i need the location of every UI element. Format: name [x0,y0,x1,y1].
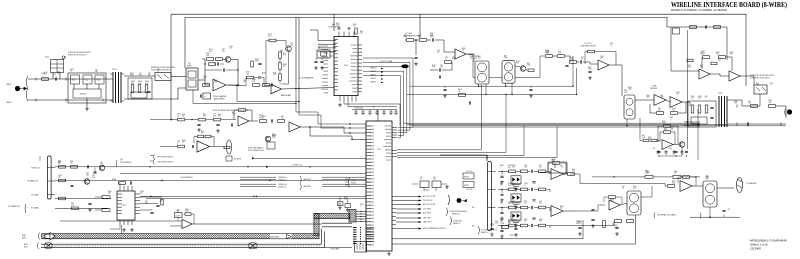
svg-text:R204: R204 [182,140,186,142]
svg-text:4.7K: 4.7K [344,199,347,201]
wire riser filter2 in b [576,68,578,94]
filter2 caps [580,60,581,63]
ground U16 [338,103,342,107]
svg-text:ADC TRIG: ADC TRIG [423,212,432,215]
svg-text:TO SMR BUS: TO SMR BUS [746,183,757,185]
U20 feedback resistor [185,213,191,216]
transistor Q5 row2 [84,179,90,185]
protection network K101 contact block [68,73,106,103]
op-amp U22 row3 [551,206,563,217]
rail cap [657,150,660,155]
svg-text:220: 220 [437,52,440,54]
svg-text:R156: R156 [500,165,504,167]
capacitor C41 [271,119,272,122]
svg-text:C12: C12 [433,177,436,179]
svg-text:R156: R156 [338,203,342,205]
svg-text:.1: .1 [512,203,513,205]
wire modem verticals right [686,30,688,149]
modem cap 3 [685,151,688,152]
svg-text:.1: .1 [500,167,501,169]
protection diode pair [511,194,521,202]
row cap2 [532,218,535,219]
svg-text:C88: C88 [280,50,283,52]
svg-text:R47: R47 [508,221,511,223]
svg-text:1K: 1K [622,188,624,190]
svg-text:2.2K: 2.2K [558,53,561,55]
hatched bus vertical riser [314,214,319,236]
wire U17 mid right run 3 [397,126,786,156]
resistor R1 on line [42,78,49,81]
svg-text:220: 220 [57,73,60,75]
svg-text:220: 220 [500,221,503,223]
wire bottom long 2 [392,215,636,244]
filter1 resistor Ra [407,39,414,42]
svg-text:SK362: SK362 [464,177,469,179]
svg-text:.01: .01 [177,115,179,117]
grid resistor [698,105,701,113]
svg-text:4.7K: 4.7K [495,223,498,225]
svg-text:C204: C204 [229,46,233,48]
row resistor c [539,188,546,191]
twisted pair dashes [46,245,320,247]
A/D MUX note [300,176,301,190]
svg-text:( 750 DATA IN 2 ): ( 750 DATA IN 2 ) [180,176,194,179]
varistor RV1 box above [51,60,64,73]
svg-text:POSITION OF HIGH SECURITY: POSITION OF HIGH SECURITY [68,52,92,54]
row wire [498,225,509,227]
svg-text:4.7K: 4.7K [612,225,615,227]
svg-text:R47: R47 [283,53,286,55]
svg-text:.047: .047 [691,98,694,100]
wire amp out to ADC [282,88,335,90]
row2 wire [55,180,366,182]
svg-text:TONE CLK: TONE CLK [31,167,41,169]
svg-text:220: 220 [539,167,542,169]
hatched bus horizontal upper [314,214,350,219]
U17 row wire TX OUT WP [396,200,421,202]
svg-text:R101: R101 [512,219,516,221]
filter1 caps2 [439,68,440,71]
wire band left extensions [404,122,482,124]
svg-text:1K: 1K [160,201,162,203]
svg-text:RX DATA: RX DATA [31,206,39,209]
svg-text:C12: C12 [570,57,573,59]
svg-text:R188: R188 [112,179,116,181]
svg-text:R204: R204 [578,221,582,223]
wire line1 top [28,78,113,80]
wire U14 branch [310,127,366,140]
filter2 resistor Rc [570,61,577,64]
svg-text:R156: R156 [516,61,520,63]
amp input cap [259,76,260,79]
feedback cap C21 [217,62,218,65]
svg-text:4.7K: 4.7K [748,103,751,105]
svg-text:5 REF: 5 REF [176,215,180,217]
svg-text:E102: E102 [85,80,89,82]
rail resistor 1 [645,176,653,179]
svg-text:C204: C204 [676,92,680,94]
transistor Q4 row1 [99,165,105,171]
wire rows into U17 with labels [240,176,276,178]
capacitor filter2 gnd [588,71,591,72]
svg-text:WIRELINE INTERFACE BOARD (8-WI: WIRELINE INTERFACE BOARD (8-WIRE) [671,1,787,9]
U16 bottom pins to bundle [340,96,356,102]
wire bundle U16 to U17 nested loops [363,58,413,128]
svg-text:R310: R310 [539,219,543,221]
amp bias res/cap pair [251,61,254,67]
svg-text:.047: .047 [539,203,542,205]
relay K102 [155,73,171,81]
crystal caps [314,61,317,62]
wire U23 out [692,185,703,187]
U25 feedback resistors [609,196,616,199]
transformer T102 [719,96,722,127]
filter1 caps [432,38,433,41]
wire U24 bottom [709,207,711,217]
svg-text:ADC OUT 2 WP: ADC OUT 2 WP [423,203,436,206]
wire filter2 feedback [585,52,588,65]
svg-text:.1: .1 [770,85,771,87]
varistor circle [62,56,65,59]
svg-text:100: 100 [700,54,703,56]
svg-text:1K: 1K [262,118,264,120]
op-amp U3 filter1 [455,49,466,59]
svg-text:(SHEET 4): (SHEET 4) [481,232,489,234]
svg-text:220: 220 [182,142,185,144]
transistor Q8 modem [679,142,685,148]
row1 caps [87,165,88,168]
resistor bias stack [279,52,282,59]
row resistor c [539,224,546,227]
svg-text:100K: 100K [588,69,592,71]
modem feedback resistor 1 [664,125,671,128]
wire y183 run to U23 [570,174,667,186]
svg-text:C47: C47 [95,70,98,72]
svg-text:220: 220 [433,179,436,181]
row4 wire [55,207,108,209]
filter1 bottom long wire a [410,85,573,87]
svg-text:2.2K: 2.2K [688,67,691,69]
row resistor b [521,224,528,227]
svg-text:TEST WP: TEST WP [423,218,431,220]
wire nested corner a to U17 [296,85,366,124]
svg-text:.001: .001 [706,178,709,180]
svg-text:C12: C12 [670,127,673,129]
svg-text:C204: C204 [524,183,528,185]
modem feedback resistor 2 [664,131,671,134]
U21 feedback loop [553,162,560,165]
wire output joins [785,106,787,118]
wire limiter feedback loop [194,137,198,144]
svg-text:.047: .047 [516,63,519,65]
svg-text:R310: R310 [662,121,666,123]
wire vertical drop x420 into filter [419,14,421,38]
bypass capacitor C54 [382,110,385,115]
svg-text:R101: R101 [336,23,340,25]
op-amp U2 amplifier [271,84,282,93]
relay contact box d [73,89,101,98]
bottom caps cluster3 [578,227,581,228]
wire modem cross links [684,121,700,123]
relay K104 [754,85,767,94]
U17 row wire ADC OUT 2 WP [396,204,421,206]
svg-text:2.2K: 2.2K [672,183,675,185]
svg-text:R47: R47 [664,129,667,131]
U19 right pins [135,194,140,214]
U16 top pin caps [338,28,341,29]
U17 left pins [366,126,371,245]
svg-text:R101: R101 [218,114,222,116]
svg-text:.01: .01 [157,71,159,73]
svg-text:LOW PASS FILTER: LOW PASS FILTER [580,45,597,48]
svg-text:C88: C88 [177,141,180,143]
wire J2 top feed stub [486,156,488,161]
svg-text:R310: R310 [648,137,652,139]
svg-text:AMPLIFIER: AMPLIFIER [214,98,225,101]
wire vertical drop x299 [298,17,300,110]
bypass capacitor C51 [361,110,364,115]
svg-text:C88: C88 [445,57,448,59]
wire riser x506 up [505,94,507,124]
svg-text:R47: R47 [718,58,721,60]
svg-text:R33: R33 [86,173,89,175]
svg-text:R156: R156 [344,197,348,199]
svg-text:R33: R33 [360,31,363,33]
svg-text:10K: 10K [95,71,98,73]
svg-text:R310: R310 [646,171,650,173]
svg-text:C88: C88 [524,165,527,167]
op-amp U21 row1 [551,169,563,180]
row resistor a [509,188,516,191]
svg-text:C204: C204 [600,56,604,58]
bypass capacitor C50 [354,110,357,115]
svg-text:2.2K: 2.2K [432,67,435,69]
svg-text:R310: R310 [160,199,164,201]
svg-text:R33: R33 [572,169,575,171]
svg-text:47K: 47K [283,66,286,68]
row cap [531,188,532,191]
balance box [131,92,147,98]
grid resistor [691,105,694,113]
row gnd [514,205,518,209]
wire loop below preamp a [193,90,296,104]
wire bottom long 1 [392,220,583,239]
protection diode pair [511,212,521,220]
svg-text:.1: .1 [262,74,263,76]
svg-text:2.2K: 2.2K [646,173,649,175]
U17 right pin labels inside [383,126,391,160]
row2 cap [70,185,73,186]
wire vertical drop x334 [333,14,335,31]
svg-text:R201: R201 [510,235,514,237]
svg-text:C204: C204 [646,95,650,97]
wire filter1 signal y77.5 [468,55,475,78]
wire rail A left drop [170,14,172,119]
svg-text:R310: R310 [462,48,466,50]
grid caps [710,107,713,108]
svg-text:100K: 100K [232,114,236,116]
wire filter1 to opamp [435,40,455,52]
modem cap 2 [674,151,677,152]
wire hybrid chain [710,74,729,76]
resistor R61 on y119.6 [178,118,185,121]
svg-text:R33: R33 [524,201,527,203]
connector J2 bar [488,162,492,231]
bus2 continue to connector [325,246,353,248]
pack U24 smr [703,181,717,207]
row1 resistor [59,166,66,169]
svg-text:C47: C47 [188,63,191,65]
pack U26 [627,191,641,215]
feedback resistor R21 [207,58,214,61]
svg-text:ADC OUT 1 WP: ADC OUT 1 WP [423,195,436,198]
wire inner rail drop [726,27,728,60]
svg-text:10K: 10K [658,110,661,112]
analog switch pack U5 [502,61,515,84]
wire inner rail right [671,26,727,28]
wire long run3 [60,220,182,222]
svg-text:47K: 47K [139,75,142,77]
wire filter2 net [553,55,557,57]
wire to output connector [776,105,786,107]
svg-text:(SHEET 3): (SHEET 3) [452,213,460,215]
svg-text:C88: C88 [120,159,123,161]
svg-text:R47: R47 [527,63,530,65]
wire U20 out to bus [192,223,322,225]
wire DC boxes [423,188,425,192]
svg-text:R33: R33 [58,161,61,163]
resistor below filter1 [459,94,466,97]
wire modem bottom join [659,147,682,156]
twisted pair bus top line [41,229,322,245]
filter1 resistor Rc [445,61,452,64]
svg-text:100: 100 [508,203,511,205]
svg-text:FOR CONNECTIONS: FOR CONNECTIONS [248,150,264,152]
transistor Q7 under [265,136,271,142]
wire U22 to U25 [578,205,605,211]
relay contact box a [71,75,80,84]
svg-text:C204: C204 [672,108,676,110]
svg-text:R33: R33 [148,73,151,75]
svg-text:C47: C47 [100,162,103,164]
svg-text:POSITION OF SECURITY: POSITION OF SECURITY [68,54,88,56]
resistor R65 limiter out [224,146,230,149]
svg-text:R204: R204 [255,59,259,61]
row input cap to gnd [500,230,503,231]
op-amp U12 limiter [197,141,210,152]
svg-text:DC1&2: DC1&2 [424,190,430,192]
relay K103 block [186,68,198,90]
svg-text:220: 220 [500,185,503,187]
wire y119.6 run [150,119,177,121]
svg-text:+2: +2 [205,96,207,98]
svg-text:47K: 47K [730,54,733,56]
svg-text:R33: R33 [512,201,515,203]
svg-text:.1: .1 [524,185,525,187]
row gnd [514,187,518,191]
svg-text:C47: C47 [539,165,542,167]
U16 left pin labels [321,46,328,93]
gnd stubs bottom wires [443,89,446,90]
svg-text:.01: .01 [458,91,460,93]
wire T102 out top [727,100,760,106]
svg-text:.1: .1 [41,75,43,77]
svg-text:.1: .1 [705,98,706,100]
svg-text:R204: R204 [698,96,702,98]
svg-text:100K: 100K [578,223,582,225]
svg-text:100K: 100K [130,75,134,77]
svg-text:2.2K: 2.2K [524,203,527,205]
limiter feedback resistor pair [198,135,204,138]
svg-text:220: 220 [182,116,185,118]
cable oval TO SMR BUS [737,178,743,193]
op-amp U27 modem [662,140,673,150]
termination network cluster [128,78,152,99]
svg-text:2.2K: 2.2K [734,103,737,105]
filter2 resistor Ra [546,55,553,58]
row resistor b [521,188,528,191]
capacitor C1 series [55,77,56,80]
wire y146 limiter input [160,146,177,148]
svg-text:.001: .001 [246,73,249,75]
wire loop below preamp b [237,86,299,102]
feedback resistor Rf [269,39,276,42]
svg-text:R310: R310 [432,65,436,67]
svg-text:AMPLIFIER: AMPLIFIER [281,94,292,97]
wire U24 out [717,187,734,189]
svg-text:4.7K: 4.7K [283,55,286,57]
svg-text:10K: 10K [546,53,549,55]
svg-text:R310: R310 [512,183,516,185]
wire U17 mid right run 2 [397,125,727,153]
svg-text:10K: 10K [674,173,677,175]
svg-text:R33: R33 [201,131,204,133]
U17 bottom left pin rows dense [366,228,374,242]
svg-text:U19: U19 [122,205,125,207]
op-amp U9 line driver B [670,97,682,108]
svg-text:K101: K101 [45,57,49,59]
svg-text:R101: R101 [262,116,266,118]
bus outline to U17 [322,223,352,227]
svg-text:2.2K: 2.2K [539,221,542,223]
twisted pair bus bottom line [41,232,325,248]
svg-text:TP7 (TP MUX INPUT 1): TP7 (TP MUX INPUT 1) [157,157,174,159]
resistor R23 input [203,84,210,87]
rows brace 3 [450,217,452,226]
wire U16 bottom bundle right [344,102,400,127]
svg-text:R33: R33 [318,46,321,48]
caps left U25 [591,209,594,210]
transistor Q1 feedback [225,57,231,63]
U22 out [563,210,578,212]
wire long rail y176.9 [592,176,645,178]
svg-text:220: 220 [318,48,321,50]
wires through protection block [73,84,75,89]
bus1 left start arrow glyph [45,233,55,240]
row resistor c [539,170,546,173]
U13 feedback [239,109,246,112]
row wire [498,188,509,190]
relay contact box c [95,75,104,84]
svg-text:SURGE: SURGE [80,94,87,96]
resistor network r1 [131,85,134,93]
svg-text:.001: .001 [213,115,216,117]
svg-text:RX +: RX + [472,207,476,209]
svg-text:C204: C204 [58,175,62,177]
svg-text:2.2K: 2.2K [214,82,217,84]
svg-text:TX DATA CLK: TX DATA CLK [27,179,39,182]
filter2 feedback resistor [588,50,595,53]
